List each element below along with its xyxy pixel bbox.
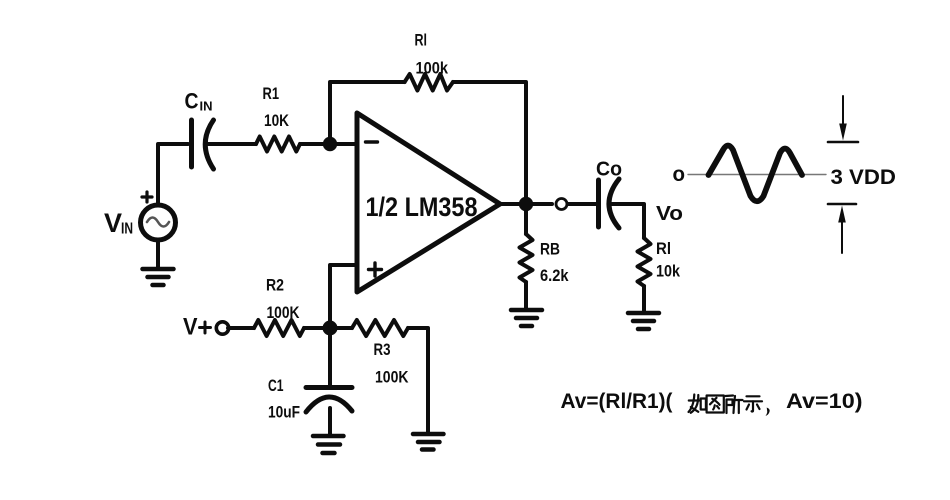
- svg-text:10k: 10k: [656, 262, 680, 281]
- capacitor C1: [306, 388, 352, 413]
- label R1: [263, 84, 280, 103]
- value 10K: [264, 111, 290, 130]
- plus mark of V+: [200, 322, 211, 333]
- value 100K: [375, 368, 409, 387]
- dimension arrow bottom: [828, 204, 856, 253]
- svg-text:10K: 10K: [264, 111, 290, 130]
- wire V+ to R2: [228, 326, 254, 330]
- wire non-inverting input: [330, 265, 357, 328]
- svg-text:100K: 100K: [267, 303, 301, 322]
- svg-text:V: V: [104, 208, 122, 238]
- wire op-amp output: [500, 202, 552, 206]
- label Co: [596, 159, 622, 181]
- svg-text:RB: RB: [540, 240, 560, 259]
- wire VIN top to CIN: [158, 144, 188, 205]
- svg-text:Av=(Rl/R1)(: Av=(Rl/R1)(: [561, 389, 674, 413]
- svg-text:o: o: [673, 163, 686, 186]
- resistor R3: [352, 320, 408, 336]
- inverting input mark -: [366, 140, 378, 143]
- svg-text:100K: 100K: [375, 368, 409, 387]
- resistor R1: [256, 137, 300, 152]
- label 3 VDD: [831, 165, 897, 189]
- wire terminal to Co: [568, 202, 597, 206]
- hanzi shi: [744, 396, 762, 411]
- ground under VIN: [143, 269, 174, 285]
- svg-text:Rl: Rl: [415, 31, 428, 50]
- op-amp U1 1/2 LM358: [357, 113, 500, 292]
- label o of waveform axis: [673, 163, 686, 186]
- resistor Rl feedback: [405, 74, 453, 91]
- label R2: [266, 276, 284, 295]
- label 1/2 LM358: [366, 192, 478, 222]
- wire Co to Rl load: [612, 204, 644, 238]
- svg-text:C1: C1: [268, 376, 284, 395]
- wire node N3 to C1: [328, 328, 332, 386]
- label RB: [540, 240, 560, 259]
- dimension arrow top: [828, 96, 858, 142]
- wire R2 to node N3: [304, 326, 352, 330]
- ground under Rl load: [628, 313, 659, 329]
- wire C1 to ground: [328, 408, 332, 434]
- svg-text:V: V: [183, 314, 198, 341]
- formula text Av=(Rl/R1)(: [561, 389, 674, 413]
- svg-text:Vo: Vo: [656, 202, 683, 225]
- svg-text:Rl: Rl: [656, 239, 671, 258]
- ground under C1: [313, 436, 344, 453]
- waveform axis line: [688, 174, 826, 176]
- svg-text:Av=10): Av=10): [786, 389, 863, 413]
- formula text Av=10): [786, 389, 863, 413]
- label Rl: [415, 31, 428, 50]
- node junction N2 output: [519, 197, 533, 211]
- wire VIN bottom to ground: [156, 241, 160, 268]
- svg-text:R1: R1: [263, 84, 280, 103]
- ground under RB: [511, 310, 542, 326]
- capacitor CIN: [192, 120, 214, 169]
- wire feedback to output node: [453, 82, 526, 204]
- node junction N1: [323, 137, 337, 151]
- label R3: [374, 340, 391, 359]
- resistor R2: [254, 320, 304, 336]
- resistor Rl load: [638, 238, 651, 311]
- ground under R3: [413, 434, 444, 450]
- non-inverting input mark +: [369, 263, 382, 276]
- svg-text:C: C: [185, 89, 199, 114]
- svg-text:IN: IN: [121, 221, 133, 238]
- value 100K: [267, 303, 301, 322]
- svg-text:Co: Co: [596, 159, 622, 181]
- node junction N3: [323, 321, 338, 336]
- value 10uF: [268, 403, 300, 422]
- label C1: [268, 376, 284, 395]
- label V+: [183, 314, 198, 341]
- svg-text:R3: R3: [374, 340, 391, 359]
- fullwidth comma: [766, 408, 770, 417]
- wire R1 to inverting input: [300, 142, 357, 146]
- value 6.2k: [540, 266, 569, 285]
- resistor RB: [520, 211, 533, 308]
- plus polarity mark of VIN: [142, 192, 152, 202]
- svg-text:IN: IN: [200, 99, 213, 114]
- waveform sine: [709, 146, 803, 202]
- terminal open circle at output: [556, 199, 567, 210]
- wire feedback loop: [330, 82, 405, 144]
- terminal open circle V+: [216, 322, 228, 334]
- label Vo: [656, 202, 683, 225]
- svg-text:3 VDD: 3 VDD: [831, 165, 897, 189]
- svg-text:R2: R2: [266, 276, 284, 295]
- label CIN: [185, 89, 213, 114]
- wire R3 to ground: [408, 328, 428, 432]
- svg-text:100k: 100k: [416, 59, 449, 78]
- value 100k: [416, 59, 449, 78]
- capacitor Co: [599, 179, 620, 228]
- svg-text:6.2k: 6.2k: [540, 266, 569, 285]
- hanzi suo: [726, 396, 743, 414]
- label Rl load: [656, 239, 671, 258]
- svg-text:1/2 LM358: 1/2 LM358: [366, 192, 478, 222]
- hanzi tu: [707, 396, 724, 413]
- wire CIN to R1: [206, 142, 256, 146]
- hanzi ru: [689, 395, 706, 413]
- svg-text:10uF: 10uF: [268, 403, 300, 422]
- value 10k: [656, 262, 680, 281]
- source VIN: [141, 205, 176, 240]
- label VIN: [104, 208, 133, 238]
